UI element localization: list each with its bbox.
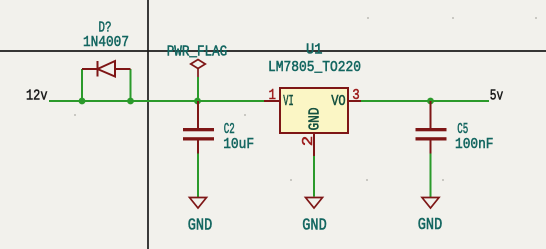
junction node at C2 / PWR_FLAG <box>194 98 201 105</box>
wire: diode right leg (vertical) <box>130 69 132 101</box>
svg-text:GND: GND <box>188 217 213 236</box>
pin 3 of U1 (VO) <box>348 100 361 102</box>
power flag PWR_FLAG symbol <box>191 60 206 78</box>
junction node at diode left leg <box>79 98 86 105</box>
ground symbol under U1 <box>306 198 323 209</box>
label GND under C2 <box>188 217 213 236</box>
capacitor C2 symbol <box>183 101 214 154</box>
svg-text:10uF: 10uF <box>223 136 254 153</box>
sheet border horizontal line <box>0 50 546 52</box>
svg-text:5v: 5v <box>490 88 504 105</box>
value LM7805_TO220 <box>268 59 361 76</box>
svg-text:12v: 12v <box>26 88 48 105</box>
svg-text:1N4007: 1N4007 <box>83 34 129 51</box>
reference C2 <box>224 121 235 138</box>
pin 1 of U1 (VI) <box>264 100 280 102</box>
reference D? <box>99 19 112 36</box>
pin number 2 (rotated) <box>300 136 317 147</box>
label 5v <box>490 88 504 105</box>
svg-text:GND: GND <box>302 217 327 236</box>
svg-text:U1: U1 <box>306 42 323 59</box>
reference C5 <box>457 121 468 138</box>
value 10uF <box>223 136 254 153</box>
label 12v <box>26 88 48 105</box>
ground symbol under C2 <box>190 198 207 209</box>
wire: U1 pin 2 to ground <box>313 156 315 197</box>
wire: PWR_FLAG stem <box>197 77 199 101</box>
svg-text:LM7805_TO220: LM7805_TO220 <box>268 59 361 76</box>
pin name VI <box>283 93 294 110</box>
sheet border vertical line <box>147 0 149 249</box>
wire: 12v input net (horizontal) <box>49 100 264 102</box>
label PWR_FLAG <box>167 43 228 60</box>
pin name VO <box>331 93 346 110</box>
svg-text:VO: VO <box>331 93 346 110</box>
label GND under C5 <box>418 216 443 235</box>
pin number 3 <box>352 87 360 104</box>
wire: 5v output net (horizontal) <box>361 100 489 102</box>
svg-text:100nF: 100nF <box>455 136 494 153</box>
svg-text:2: 2 <box>300 136 317 147</box>
svg-text:VI: VI <box>283 93 294 110</box>
wire: C2 to ground <box>197 154 199 198</box>
value 1N4007 <box>83 34 129 51</box>
pin 2 of U1 (GND, vertical) <box>313 133 315 156</box>
svg-text:GND: GND <box>306 108 323 131</box>
wire: diode left leg (vertical) <box>81 69 83 101</box>
svg-text:3: 3 <box>352 87 360 104</box>
regulator U1 body <box>280 88 348 133</box>
ground symbol under C5 <box>422 198 439 209</box>
svg-text:PWR_FLAG: PWR_FLAG <box>167 43 228 60</box>
label GND under U1 <box>302 217 327 236</box>
pin number 1 <box>269 87 277 104</box>
diode D? 1N4007 symbol <box>82 61 131 77</box>
wire: C5 to ground <box>430 154 432 198</box>
reference U1 <box>306 42 323 59</box>
junction node at diode right leg <box>127 98 134 105</box>
svg-text:1: 1 <box>269 87 277 104</box>
svg-text:GND: GND <box>418 216 443 235</box>
junction node at C5 <box>427 98 434 105</box>
capacitor C5 symbol <box>416 101 447 154</box>
value 100nF <box>455 136 494 153</box>
pin name GND (rotated, inside U1) <box>306 108 323 131</box>
